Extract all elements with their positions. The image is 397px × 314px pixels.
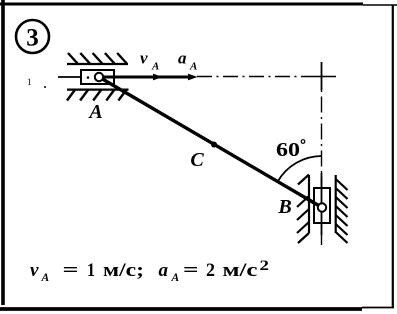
horizontal centerline dash-dot <box>197 76 307 78</box>
vertical centerline dash-dot <box>321 90 323 245</box>
svg-text:A: A <box>41 272 50 284</box>
horizontal centerline solid end <box>307 76 336 78</box>
frame right border <box>392 5 394 307</box>
frame top border thick <box>0 3 363 6</box>
point C <box>211 142 217 148</box>
rod end into pin B <box>305 198 322 208</box>
svg-text:1: 1 <box>87 260 95 281</box>
ceiling hatching <box>68 53 127 64</box>
rod AB <box>99 77 322 208</box>
svg-text:=: = <box>63 260 79 281</box>
svg-text:м/с: м/с <box>223 260 258 281</box>
slider block A <box>81 70 114 84</box>
floor line below slider A <box>67 88 129 90</box>
pin A <box>95 73 103 81</box>
svg-text:B: B <box>277 196 291 218</box>
right wall hatching <box>336 179 348 243</box>
svg-text:60: 60 <box>276 139 300 161</box>
svg-text:A: A <box>189 61 197 73</box>
given data formula <box>30 258 269 284</box>
velocity-acceleration vector line <box>103 76 193 79</box>
svg-text:a: a <box>159 260 169 281</box>
svg-text:м/с;: м/с; <box>103 260 144 281</box>
degree mark <box>301 140 305 144</box>
arrowhead vA <box>153 74 163 81</box>
frame bottom border thick <box>0 307 362 311</box>
slider block B <box>314 188 330 223</box>
svg-text:2: 2 <box>260 258 270 274</box>
svg-text:1: 1 <box>27 77 32 87</box>
frame bottom border thin <box>362 307 394 309</box>
arrowhead aA <box>188 74 198 81</box>
frame left border <box>1 0 5 305</box>
right wall line at B <box>335 175 337 233</box>
svg-text:C: C <box>190 149 204 171</box>
stray dot <box>44 86 46 88</box>
dot inside slider A <box>87 76 90 79</box>
svg-text:3: 3 <box>26 25 39 52</box>
angle arc 60deg <box>278 156 322 181</box>
svg-text:=: = <box>183 260 199 281</box>
left wall line at B <box>308 175 310 233</box>
pin B <box>318 203 326 211</box>
svg-text:A: A <box>87 101 102 123</box>
guide line left of slider A <box>58 76 81 78</box>
problem number badge circle <box>16 20 49 53</box>
svg-text:a: a <box>178 49 187 68</box>
left wall hatching <box>297 175 309 244</box>
vertical centerline tick at crossing <box>321 62 323 90</box>
floor hatching <box>67 90 127 101</box>
svg-text:A: A <box>171 272 180 284</box>
ceiling line above slider A <box>67 63 128 65</box>
svg-text:2: 2 <box>206 260 215 281</box>
svg-text:v: v <box>140 49 148 68</box>
svg-text:v: v <box>30 260 39 281</box>
svg-text:A: A <box>151 61 159 73</box>
guide line through slider B <box>321 173 323 235</box>
frame top border thin <box>363 4 397 6</box>
